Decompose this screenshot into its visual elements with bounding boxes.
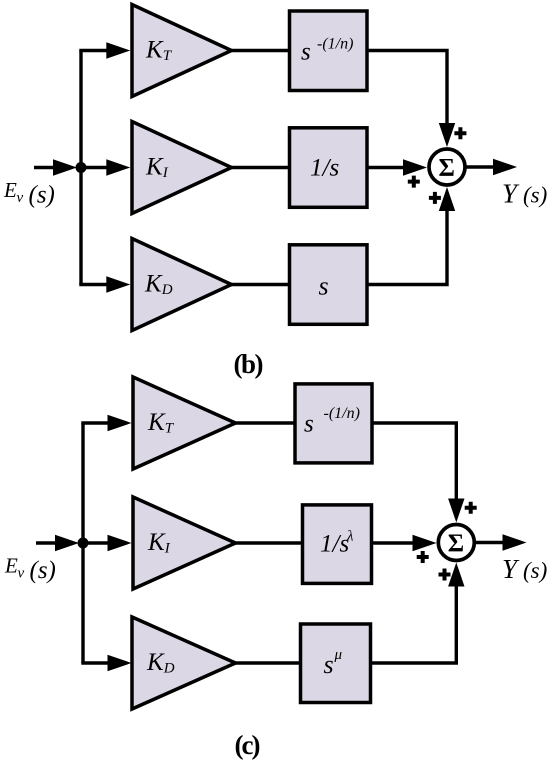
arrowhead into KI (c) [108,535,132,551]
gain block KT (c) [133,377,236,469]
arrowhead into KT (b) [106,42,130,58]
arrowhead up into summer (b) [439,187,455,211]
svg-text:s: s [304,411,314,438]
block s^mu (c) [301,624,371,703]
wire top row to summer (b) [366,51,447,124]
wire trunk to KT (b) [79,49,108,52]
wire KT to block (c) [236,421,295,424]
input arrowhead (c) [55,535,79,551]
wire trunk to KD (b) [79,283,107,286]
output arrowhead (b) [493,159,517,175]
wire node to KI (c) [86,541,110,544]
wire trunk to KD (c) [81,661,109,664]
gain block KD (c) [132,617,236,709]
gain block KT (b) [132,5,232,97]
wire bottom row to summer (b) [366,211,447,285]
input wire Ev(s) (b) [34,166,55,169]
arrowhead into KT (c) [108,415,132,431]
plus sign bottom (c) [439,569,451,581]
gain block KI (c) [133,497,236,589]
trunk wire (b) [79,51,82,285]
svg-text:1/s: 1/s [320,531,349,558]
input arrowhead (b) [53,159,77,175]
svg-text:s: s [319,272,329,301]
svg-text:s: s [324,650,334,679]
svg-text:(c): (c) [235,730,260,760]
gain block KI (b) [132,122,232,214]
arrowhead into KD (c) [108,655,132,671]
block 1/s (b) [290,128,368,208]
summing junction (c) [438,525,474,561]
svg-text:Σ: Σ [448,530,464,557]
wire node to KI (b) [84,166,108,169]
arrowhead into KI (b) [106,159,130,175]
arrowhead right into summer (b) [403,159,427,175]
svg-text:Y: Y [502,179,520,209]
wire KD to block (c) [236,661,300,664]
arrowhead up into summer (c) [448,563,464,587]
svg-text:(s): (s) [523,558,547,583]
svg-text:-(1/n): -(1/n) [317,36,353,53]
arrowhead down into summer (c) [448,499,464,523]
wire trunk to KT (c) [81,421,110,424]
summing junction (b) [429,149,465,185]
wire bottom row to summer (c) [372,587,456,664]
trunk wire (c) [81,423,84,663]
block s^-(1/n) (c) [295,384,372,463]
arrowhead down into summer (b) [439,123,455,147]
svg-text:-(1/n): -(1/n) [324,405,360,422]
svg-text:s: s [301,39,311,66]
plus sign bottom (b) [429,192,441,204]
wire mid row to summer (b) [366,166,404,169]
plus sign left (b) [408,176,420,188]
block s^-(1/n) (b) [290,11,368,91]
svg-text:(b): (b) [234,349,263,379]
input wire Ev(s) (c) [36,541,57,544]
svg-text:E: E [3,178,17,202]
wire KD to block (b) [231,283,288,286]
svg-text:Y: Y [502,554,520,584]
svg-text:μ: μ [334,647,343,663]
svg-text:Σ: Σ [439,155,455,182]
output arrowhead (c) [503,534,527,550]
arrowhead right into summer (c) [413,535,437,551]
svg-text:v: v [18,566,25,582]
svg-text:v: v [17,190,24,206]
plus sign top (b) [454,127,466,139]
block s (b) [290,245,368,324]
arrowhead into KD (b) [106,276,130,292]
svg-text:λ: λ [346,529,354,545]
wire KI to block (c) [236,541,303,544]
svg-text:(s): (s) [30,557,56,584]
output wire (b) [465,165,494,168]
wire KT to block (b) [231,49,288,52]
svg-text:(s): (s) [29,182,55,209]
svg-text:E: E [4,554,18,578]
node junction dot (c) [78,538,89,549]
wire mid row to summer (c) [373,541,413,544]
plus sign top (c) [465,502,477,514]
wire KI to block (b) [231,166,288,169]
svg-text:(s): (s) [523,183,547,208]
gain block KD (b) [132,239,232,331]
block 1/s^lambda (c) [303,505,372,584]
wire top row to summer (c) [372,423,456,499]
output wire (c) [474,541,503,544]
svg-text:1/s: 1/s [310,155,339,182]
node junction dot (b) [76,162,87,173]
plus sign left (c) [417,551,429,563]
